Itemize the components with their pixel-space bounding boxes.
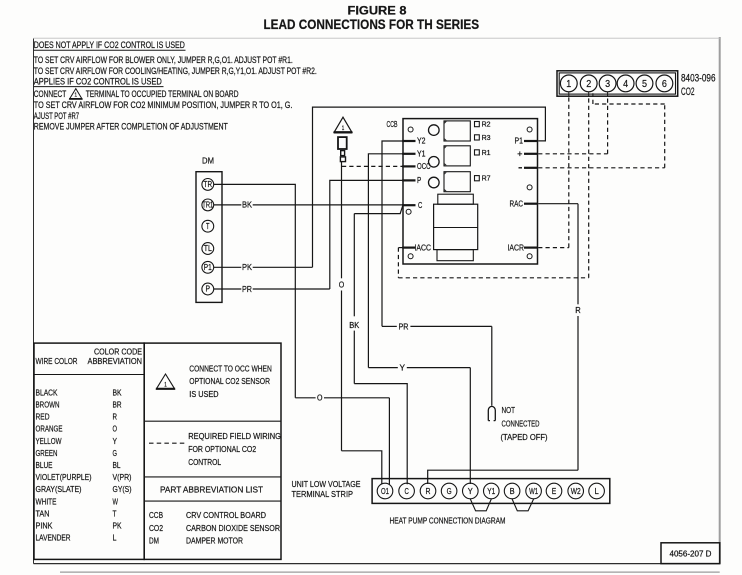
svg-text:ABBREVIATION: ABBREVIATION (88, 356, 143, 366)
svg-text:BK: BK (349, 320, 359, 330)
svg-text:APPLIES IF CO2 CONTROL IS USED: APPLIES IF CO2 CONTROL IS USED (34, 77, 162, 87)
svg-text:VIOLET(PURPLE): VIOLET(PURPLE) (36, 472, 92, 482)
CO2 terminal stubs (568, 92, 570, 97)
svg-text:PART ABBREVIATION LIST: PART ABBREVIATION LIST (160, 484, 264, 494)
svg-text:YELLOW: YELLOW (36, 436, 63, 446)
svg-text:TERMINAL TO OCCUPIED TERMINAL: TERMINAL TO OCCUPIED TERMINAL ON BOARD (86, 89, 239, 99)
DM terminal TR (202, 179, 214, 191)
svg-text:BLUE: BLUE (36, 460, 53, 470)
relay K3 (444, 172, 470, 192)
svg-text:TL: TL (204, 244, 213, 253)
svg-text:R: R (113, 412, 118, 422)
wire C pin down to C terminal (black) (354, 206, 402, 214)
svg-text:6: 6 (662, 79, 667, 90)
pin RAC (524, 203, 538, 205)
svg-text:CONNECT TO OCC WHEN: CONNECT TO OCC WHEN (189, 363, 271, 373)
svg-text:DAMPER MOTOR: DAMPER MOTOR (186, 536, 243, 546)
LV terminal R (420, 483, 436, 499)
scan artifact line at page bottom (60, 571, 720, 573)
CCB mounting holes (408, 127, 413, 132)
LV terminal O1 (377, 483, 393, 499)
svg-text:CRV CONTROL BOARD: CRV CONTROL BOARD (186, 510, 266, 520)
svg-text:Y: Y (468, 487, 473, 496)
LV terminal L (589, 483, 605, 499)
svg-text:WIRE COLOR: WIRE COLOR (36, 356, 78, 366)
svg-text:TO SET CRV AIRFLOW FOR CO2 MIN: TO SET CRV AIRFLOW FOR CO2 MINIMUM POSIT… (34, 100, 293, 110)
CO2 terminal 4 (617, 75, 634, 92)
svg-text:RED: RED (36, 412, 50, 422)
svg-text:DOES NOT APPLY IF CO2 CONTROL: DOES NOT APPLY IF CO2 CONTROL IS USED (34, 40, 185, 50)
svg-text:FOR OPTIONAL CO2: FOR OPTIONAL CO2 (188, 444, 256, 454)
svg-text:ORANGE: ORANGE (36, 424, 63, 434)
svg-text:DM: DM (202, 156, 214, 166)
svg-text:R1: R1 (482, 148, 491, 157)
relay corner marks (445, 122, 447, 141)
svg-text:4056-207 D: 4056-207 D (670, 549, 712, 559)
svg-text:CO2: CO2 (149, 523, 163, 533)
LV terminal Y (463, 483, 479, 499)
svg-text:C: C (418, 201, 422, 210)
legend cell 2: dashed field wiring (149, 442, 186, 444)
svg-text:T: T (206, 222, 210, 231)
svg-text:UNIT LOW VOLTAGE: UNIT LOW VOLTAGE (292, 479, 361, 489)
svg-text:TERMINAL STRIP: TERMINAL STRIP (292, 489, 354, 499)
CO2 terminal 6 (656, 75, 673, 92)
warning triangle note A (334, 117, 352, 132)
svg-text:TR1: TR1 (202, 201, 213, 210)
pin Y2 (402, 140, 415, 142)
svg-text:1: 1 (75, 93, 78, 99)
heat pump pair bracket Y-Y1 (470, 499, 491, 511)
svg-text:TO SET CRV AIRFLOW FOR COOLING: TO SET CRV AIRFLOW FOR COOLING/HEATING, … (34, 66, 317, 76)
trimmer R7 (475, 176, 480, 181)
pin IACC (402, 247, 415, 249)
svg-text:Y1: Y1 (417, 150, 426, 159)
dashed wire plus pin to CO2 terminal 3 (538, 153, 607, 155)
svg-text:GY(S): GY(S) (113, 484, 132, 494)
DM terminal P1 (202, 261, 214, 273)
svg-text:OCC: OCC (417, 162, 431, 171)
trimmer R2 (475, 122, 480, 127)
svg-text:IACR: IACR (508, 243, 525, 252)
svg-text:Y: Y (113, 436, 118, 446)
svg-text:W2: W2 (571, 487, 581, 496)
svg-text:PK: PK (113, 521, 122, 531)
LV terminal W1 (526, 483, 542, 499)
svg-text:P1: P1 (515, 137, 524, 146)
svg-text:BLACK: BLACK (36, 387, 58, 397)
relay K2 (444, 146, 470, 166)
svg-text:W: W (113, 496, 119, 506)
svg-text:E: E (552, 487, 557, 496)
color code table box (34, 343, 144, 559)
svg-text:LEAD CONNECTIONS FOR TH SERIES: LEAD CONNECTIONS FOR TH SERIES (263, 17, 479, 32)
svg-text:Y: Y (400, 363, 406, 373)
svg-text:Y2: Y2 (417, 137, 426, 146)
svg-text:TAN: TAN (36, 508, 50, 518)
CO2 terminal 5 (636, 75, 653, 92)
svg-text:CO2: CO2 (681, 86, 695, 98)
wire TR1 to C pin (black) (214, 204, 242, 206)
svg-text:V(PR): V(PR) (113, 472, 132, 482)
dashed wire minus pin to CO2 terminal 2 (538, 167, 665, 169)
svg-text:L: L (113, 533, 117, 543)
svg-text:L: L (594, 487, 599, 496)
dashed wire IACC pin to CO2 terminal 2 (398, 247, 402, 249)
svg-text:PINK: PINK (36, 521, 53, 531)
svg-text:IACC: IACC (415, 243, 432, 252)
svg-text:PK: PK (242, 262, 252, 272)
svg-text:HEAT PUMP CONNECTION DIAGRAM: HEAT PUMP CONNECTION DIAGRAM (390, 516, 506, 526)
wire Y2 pin to taped-off (purple) (382, 141, 403, 326)
svg-text:P1: P1 (204, 263, 212, 272)
svg-text:CCB: CCB (149, 510, 163, 520)
svg-text:BR: BR (113, 400, 122, 410)
trimmer R1 (475, 150, 480, 155)
DM terminal P (202, 283, 214, 295)
dashed wire IACR pin to CO2 terminal 1 (538, 247, 569, 249)
svg-text:O: O (113, 424, 118, 434)
LV terminal E (546, 483, 562, 499)
legend table box (144, 343, 281, 559)
svg-text:5: 5 (642, 79, 647, 90)
svg-text:R3: R3 (482, 133, 491, 142)
border frame (33, 39, 35, 564)
svg-text:TO SET CRV AIRFLOW FOR BLOWER: TO SET CRV AIRFLOW FOR BLOWER ONLY, JUMP… (34, 55, 293, 65)
svg-text:IS USED: IS USED (189, 389, 218, 399)
DM terminal T (202, 220, 214, 232)
unit low voltage terminal strip box (372, 479, 610, 504)
svg-text:3: 3 (605, 79, 610, 90)
svg-text:G: G (113, 448, 118, 458)
svg-text:CONNECTED: CONNECTED (502, 419, 540, 429)
svg-text:GRAY(SLATE): GRAY(SLATE) (36, 484, 82, 494)
trimmer R3 (475, 135, 480, 140)
svg-text:2: 2 (586, 79, 591, 90)
svg-text:REMOVE JUMPER AFTER COMPLETION: REMOVE JUMPER AFTER COMPLETION OF ADJUST… (34, 122, 228, 132)
svg-text:GREEN: GREEN (36, 448, 58, 458)
svg-text:Y1: Y1 (487, 487, 495, 496)
svg-text:R: R (575, 305, 581, 315)
DM terminal TR1 (202, 199, 214, 211)
svg-text:O: O (339, 279, 345, 289)
svg-text:RAC: RAC (510, 199, 524, 208)
wire TR to O1 (orange) (214, 184, 296, 397)
wire P(DM) to P pin (purple) (214, 288, 242, 290)
wire faston to O1 (orange) (341, 162, 343, 279)
svg-text:DM: DM (149, 536, 159, 546)
color code header rule (34, 374, 144, 376)
heat pump pair bracket B-W1 (512, 499, 534, 511)
not connected (taped off) lead end (488, 406, 495, 420)
svg-text:CONTROL: CONTROL (188, 457, 221, 467)
wire P1(DM) to P1 pin (pink) (214, 266, 242, 268)
svg-text:BK: BK (242, 200, 252, 210)
faston connector (OCC spade terminal) (338, 137, 347, 149)
CCB control board outline (403, 119, 538, 264)
svg-text:CARBON DIOXIDE SENSOR: CARBON DIOXIDE SENSOR (186, 523, 280, 533)
legend cell 1: triangle note (156, 374, 174, 389)
svg-text:T: T (113, 508, 118, 518)
svg-text:NOT: NOT (502, 405, 516, 415)
svg-text:CONNECT: CONNECT (34, 89, 67, 99)
svg-text:PR: PR (399, 321, 409, 331)
wire RAC pin to R terminal (red) (538, 203, 578, 205)
pin C (402, 204, 415, 206)
relay K1 (444, 121, 470, 141)
svg-text:8403-096: 8403-096 (681, 73, 716, 85)
pin Y1 (402, 153, 415, 155)
pin IACR (524, 247, 538, 249)
pin plus (524, 153, 538, 155)
wire Y1 pin to Y terminal (yellow) (368, 154, 402, 368)
LV terminal B (504, 483, 520, 499)
svg-text:R: R (426, 487, 431, 496)
svg-text:R7: R7 (482, 174, 491, 183)
CO2 terminal 3 (599, 75, 616, 92)
svg-text:PR: PR (242, 284, 252, 294)
CO2 terminal strip inner box (559, 73, 675, 94)
svg-text:O1: O1 (381, 487, 389, 496)
CO2 terminal strip outer box (557, 71, 678, 96)
pin minus (524, 167, 538, 169)
svg-text:OPTIONAL CO2 SENSOR: OPTIONAL CO2 SENSOR (189, 376, 270, 386)
dashed wire OCC pin to faston (342, 165, 403, 167)
pin OCC (402, 165, 415, 167)
svg-text:4: 4 (623, 79, 628, 90)
svg-text:W1: W1 (529, 487, 538, 496)
svg-text:TR: TR (204, 180, 213, 189)
LV terminal G (441, 483, 457, 499)
svg-text:BL: BL (113, 460, 121, 470)
svg-text:AJUST POT #R7: AJUST POT #R7 (34, 111, 79, 121)
damper motor DM box (196, 172, 222, 303)
DM terminal TL (202, 243, 214, 255)
svg-text:REQUIRED FIELD WIRING: REQUIRED FIELD WIRING (188, 431, 281, 441)
svg-text:R2: R2 (482, 119, 491, 128)
CO2 terminal 1 (560, 75, 577, 92)
svg-text:(TAPED OFF): (TAPED OFF) (501, 432, 548, 442)
transformer T1 (438, 194, 474, 204)
pin P (402, 179, 415, 181)
svg-text:P: P (417, 176, 422, 185)
LV terminal Y1 (484, 483, 500, 499)
svg-text:LAVENDER: LAVENDER (36, 533, 71, 543)
potentiometer circles (429, 125, 440, 136)
svg-text:CCB: CCB (387, 120, 398, 129)
svg-text:BK: BK (113, 387, 122, 397)
svg-text:P: P (206, 285, 211, 294)
svg-text:+: + (517, 149, 522, 159)
svg-text:WHITE: WHITE (36, 496, 57, 506)
svg-text:FIGURE 8: FIGURE 8 (348, 6, 408, 18)
svg-text:O: O (317, 393, 323, 403)
svg-text:G: G (447, 487, 452, 496)
CO2 terminal 2 (580, 75, 597, 92)
drawing number box 4056-207 D (661, 543, 720, 564)
LV terminal W2 (568, 483, 584, 499)
svg-text:C: C (404, 487, 408, 496)
svg-text:1: 1 (566, 79, 571, 90)
LV terminal C (399, 483, 415, 499)
svg-text:BROWN: BROWN (36, 400, 60, 410)
pin P1 (524, 140, 538, 142)
svg-text:B: B (510, 487, 515, 496)
